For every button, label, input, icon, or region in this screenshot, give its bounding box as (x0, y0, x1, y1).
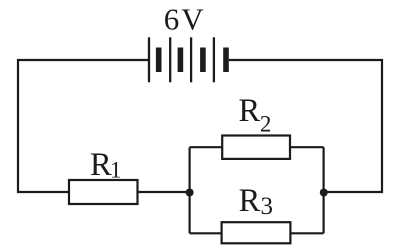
svg-text:R: R (239, 93, 261, 129)
svg-text:R: R (239, 183, 261, 219)
svg-text:V: V (181, 1, 204, 36)
svg-text:R: R (90, 147, 112, 183)
svg-text:2: 2 (260, 111, 272, 136)
svg-text:1: 1 (110, 157, 122, 182)
svg-text:3: 3 (261, 193, 274, 220)
svg-text:6: 6 (164, 1, 180, 36)
